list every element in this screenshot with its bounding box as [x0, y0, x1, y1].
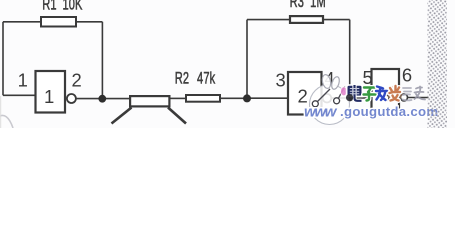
node B junction dot [243, 94, 251, 102]
watermark logo whisker left [318, 89, 331, 102]
label R3 1M [290, 0, 326, 10]
inverter gate U1A box [36, 71, 66, 113]
svg-text:1: 1 [18, 70, 28, 91]
resistor R3 [290, 16, 323, 23]
node A junction dot [98, 95, 106, 103]
wire gate U1A input (pin 1) [3, 94, 35, 96]
piezo transducer B left leg [112, 108, 132, 124]
wire R1 right lead [77, 21, 102, 23]
wire R3 right lead [324, 19, 350, 21]
watermark chinese char 4 (orange) [387, 86, 402, 102]
svg-text:www: www [304, 103, 338, 120]
inverter gate U1B box [288, 72, 322, 115]
watermark chinese char 3 (blue) [376, 87, 387, 101]
resistor R1 [41, 17, 76, 27]
wire rail node B up to R3 left [246, 20, 248, 99]
svg-text:1: 1 [44, 86, 54, 107]
svg-text:R2 47k: R2 47k [175, 68, 216, 87]
svg-text:6: 6 [402, 65, 412, 86]
wire left rail (R1 to gate U1A input) [2, 22, 4, 96]
left edge faint line [0, 96, 2, 128]
label R1 10K [42, 0, 83, 13]
svg-text:R3 1M: R3 1M [290, 0, 326, 10]
piezo transducer B body [130, 96, 169, 106]
wire R3 left lead [247, 19, 289, 21]
wire node A to piezo B [102, 98, 129, 100]
wire R2 to node B [221, 97, 247, 99]
U1B output bubble [323, 94, 332, 103]
wire U1C output (pin 6) to right [407, 97, 428, 99]
svg-text:R1 10K: R1 10K [42, 0, 83, 13]
wire piezo B to R2 [171, 97, 186, 99]
watermark logo whisker right [339, 86, 345, 98]
watermark chinese char 1 (dark navy) [348, 85, 362, 101]
wire node B to gate U1B input (pin 3) [247, 97, 287, 99]
resistor R2 [186, 95, 220, 102]
svg-text:3: 3 [275, 70, 285, 91]
watermark logo ear right [330, 76, 340, 90]
wire rail R1 right down to node A [101, 22, 103, 99]
halftone strip right edge [428, 0, 448, 128]
svg-text:2: 2 [71, 70, 81, 91]
watermark logo ear left [321, 74, 332, 89]
watermark corner arc bottom-left [0, 115, 13, 128]
inverter gate U1C box [372, 69, 400, 115]
svg-text:.gougutda.com: .gougutda.com [340, 104, 438, 119]
node C dot restamp over watermark [346, 94, 353, 101]
watermark pink blossom [340, 87, 347, 96]
U1C output bubble [401, 94, 408, 101]
wire U1A output bubble to node A [76, 98, 102, 100]
wire U1B output to gate U1C input (pin 5) [331, 97, 370, 99]
piezo transducer B right leg [168, 108, 186, 124]
watermark chinese char 5 (pale) [403, 88, 412, 100]
wire rail R3 right down to node C [349, 20, 351, 98]
watermark logo eye right [334, 98, 340, 104]
watermark chinese char 6 (pale) [415, 87, 426, 100]
node C junction dot [346, 94, 354, 102]
watermark logo eye left [312, 101, 318, 107]
label R2 47k [175, 68, 216, 87]
U1A output bubble [67, 94, 76, 103]
wire R1 left lead [3, 21, 40, 23]
watermark chinese char 2 (green) [364, 88, 376, 101]
watermark logo disc [310, 85, 350, 125]
svg-text:5: 5 [362, 67, 372, 88]
